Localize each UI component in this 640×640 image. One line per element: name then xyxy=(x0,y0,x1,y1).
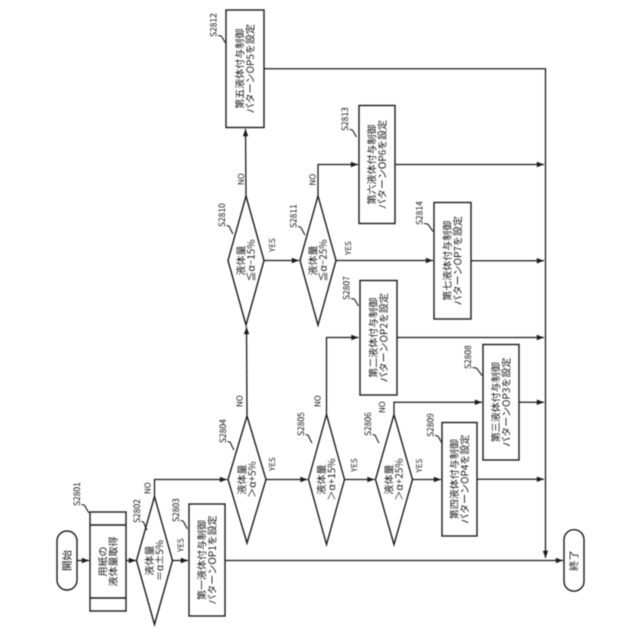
process S2807 第二液体付与制御 xyxy=(360,281,397,396)
wire S2809 output to bus xyxy=(477,477,544,482)
wire S2813 output to bus xyxy=(395,162,544,167)
label S2802 xyxy=(133,500,147,530)
wire S2803 to end terminal xyxy=(225,558,563,563)
decision S2804 液体量>α+5% xyxy=(228,416,266,543)
label YES of S2810 xyxy=(269,239,275,252)
label S2809 xyxy=(427,414,442,443)
wire start to S2801 xyxy=(77,558,89,563)
label YES of S2804 xyxy=(269,458,275,471)
process S2812 第五液体付与制御 xyxy=(226,10,264,128)
label YES of S2806 xyxy=(416,459,422,472)
wire S2811 YES to S2814 xyxy=(336,258,433,263)
label S2804 xyxy=(219,420,234,451)
label NO of S2811 xyxy=(309,174,315,185)
label S2808 xyxy=(464,346,482,376)
process S2803 第一液体付与制御 xyxy=(189,504,225,616)
label S2801 xyxy=(73,483,89,513)
label NO of S2806 xyxy=(379,402,385,413)
process S2809 第四液体付与制御 xyxy=(442,423,477,537)
label NO of S2810 xyxy=(238,174,244,185)
wire S2804 YES to S2805 xyxy=(266,477,308,482)
wire S2804 NO to S2810 xyxy=(244,327,249,416)
wire S2810 NO to S2812 xyxy=(243,129,248,196)
wire S2801 to S2802 xyxy=(126,558,136,563)
wire S2805 NO to S2807 xyxy=(327,335,359,415)
decision S2806 液体量>α+25% xyxy=(376,415,413,545)
label S2811 xyxy=(290,205,305,235)
wire S2807 output to bus xyxy=(397,335,544,340)
decision S2805 液体量>α+15% xyxy=(309,415,345,545)
process S2801 用紙の液体量取得 xyxy=(90,512,126,611)
wire S2802 NO to S2804 xyxy=(155,477,228,497)
wire S2808 output to bus xyxy=(519,400,544,405)
label YES of S2802 xyxy=(177,539,183,552)
wire S2802 YES to S2803 xyxy=(173,558,189,563)
label NO of S2802 xyxy=(144,483,150,494)
decision S2810 液体量<=α-15% xyxy=(228,196,264,325)
wire S2811 NO to S2813 xyxy=(318,162,358,196)
decision S2802 液体量=α±5% xyxy=(137,497,173,625)
wire S2814 output to bus xyxy=(471,258,544,263)
label NO of S2804 xyxy=(236,396,242,407)
bus wire from S2812 to main trunk xyxy=(264,69,548,558)
label S2813 xyxy=(341,108,356,137)
label NO of S2805 xyxy=(314,396,320,407)
wire S2806 YES to S2809 xyxy=(413,477,442,482)
label S2806 xyxy=(364,413,379,443)
wire S2810 YES to S2811 xyxy=(264,258,299,263)
label S2805 xyxy=(297,413,312,443)
label YES of S2805 xyxy=(351,459,357,472)
wire S2805 YES to S2806 xyxy=(345,477,375,482)
label YES of S2811 xyxy=(345,242,351,255)
wire S2806 NO to S2808 xyxy=(394,400,482,414)
label S2807 xyxy=(343,277,359,306)
label S2803 xyxy=(172,499,187,529)
process S2808 第三液体付与制御 xyxy=(483,345,519,461)
decision S2811 液体量<=α-25% xyxy=(300,196,336,325)
process S2814 第七液体付与制御 xyxy=(434,203,471,320)
label S2810 xyxy=(218,204,233,234)
end terminal 終了 xyxy=(564,530,584,592)
label S2812 xyxy=(210,14,226,43)
start terminal 開始 xyxy=(57,531,77,590)
process S2813 第六液体付与制御 xyxy=(359,106,395,224)
label S2814 xyxy=(416,202,433,232)
